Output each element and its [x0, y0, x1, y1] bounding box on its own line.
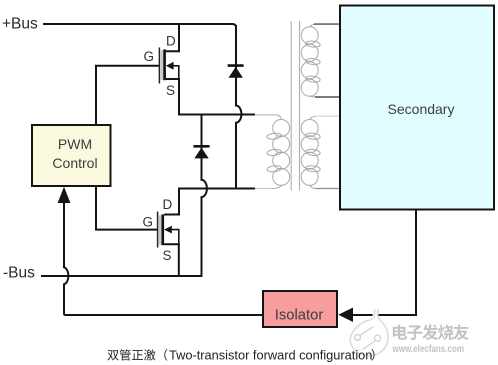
- wire node B horizontal and Q2 drain: [179, 189, 254, 215]
- wire secondary lower winding bottom terminal: [315, 188, 340, 190]
- PWM Control block: [32, 125, 111, 186]
- transformer T1 primary winding: [256, 115, 290, 189]
- svg-text:Control: Control: [52, 155, 97, 171]
- svg-text:+Bus: +Bus: [2, 16, 38, 33]
- wire primary top stub (node A to winding, light): [254, 114, 275, 116]
- wire Secondary to Isolator feedback: [352, 211, 416, 316]
- svg-text:D: D: [163, 197, 173, 212]
- svg-text:G: G: [144, 49, 155, 64]
- arrowhead into PWM Control: [58, 187, 71, 203]
- wire primary bottom stub (node B to winding, light): [254, 188, 272, 190]
- transformer T1 secondary winding upper: [301, 24, 320, 97]
- svg-text:Two-transistor forward configu: Two-transistor forward configuration: [169, 348, 372, 363]
- wire Q2 source to -Bus: [178, 244, 180, 275]
- transformer T1 core: [291, 21, 299, 191]
- svg-text:Secondary: Secondary: [388, 101, 455, 117]
- wire secondary upper winding top terminal: [314, 23, 340, 25]
- caption 双管正激: [107, 350, 118, 360]
- svg-text:S: S: [166, 83, 175, 98]
- transformer T1 secondary winding lower: [301, 116, 320, 188]
- watermark text 电子发烧友: [393, 324, 469, 340]
- wire secondary upper winding bottom terminal: [315, 96, 340, 98]
- wire Q1 drain from +Bus: [178, 25, 180, 51]
- Isolator block: [263, 291, 337, 327]
- wire +Bus rail: [44, 24, 236, 28]
- wire Q1 source to node A: [179, 79, 254, 114]
- wire -Bus rail: [42, 275, 202, 277]
- wire D2 branch vertical (with hop over node B wire): [202, 115, 207, 276]
- watermark logo (elecfans mouse): [350, 307, 388, 356]
- wire PWM to Q1 gate: [96, 66, 159, 124]
- svg-text:Isolator: Isolator: [275, 308, 324, 324]
- svg-text:www.elecfans.com: www.elecfans.com: [392, 344, 464, 355]
- svg-text:-Bus: -Bus: [3, 265, 35, 282]
- svg-text:S: S: [163, 248, 172, 263]
- arrowhead into Isolator: [338, 308, 353, 323]
- svg-text:D: D: [166, 34, 176, 49]
- wire D1 branch vertical (with hop over node A wire): [236, 26, 241, 188]
- wire Isolator to PWM feedback (with hop over -Bus): [64, 203, 262, 316]
- transistor Q1 (upper MOSFET): [159, 48, 178, 84]
- wire secondary lower winding top terminal (light): [314, 115, 340, 117]
- svg-text:PWM: PWM: [58, 136, 92, 152]
- diode D2 (clamp to -Bus): [193, 146, 209, 158]
- Secondary block: [340, 6, 494, 210]
- wire PWM to Q2 gate: [96, 188, 157, 230]
- diode D1 (clamp to +Bus): [228, 66, 244, 78]
- svg-text:G: G: [143, 215, 154, 230]
- transistor Q2 (lower MOSFET): [158, 212, 179, 248]
